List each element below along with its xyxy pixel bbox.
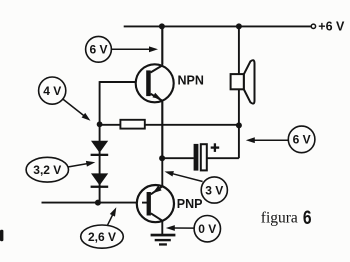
svg-text:6: 6 <box>303 208 312 229</box>
svg-text:+6 V: +6 V <box>318 20 345 34</box>
svg-text:6 V: 6 V <box>293 133 311 147</box>
svg-text:3,2 V: 3,2 V <box>33 163 61 177</box>
svg-text:0 V: 0 V <box>198 222 216 236</box>
svg-text:4 V: 4 V <box>43 84 61 98</box>
svg-text:2,6 V: 2,6 V <box>88 230 116 244</box>
svg-text:PNP: PNP <box>177 197 203 211</box>
svg-text:6 V: 6 V <box>89 43 107 57</box>
svg-text:figura: figura <box>261 210 298 227</box>
svg-text:3 V: 3 V <box>205 183 223 197</box>
svg-text:NPN: NPN <box>178 74 204 88</box>
